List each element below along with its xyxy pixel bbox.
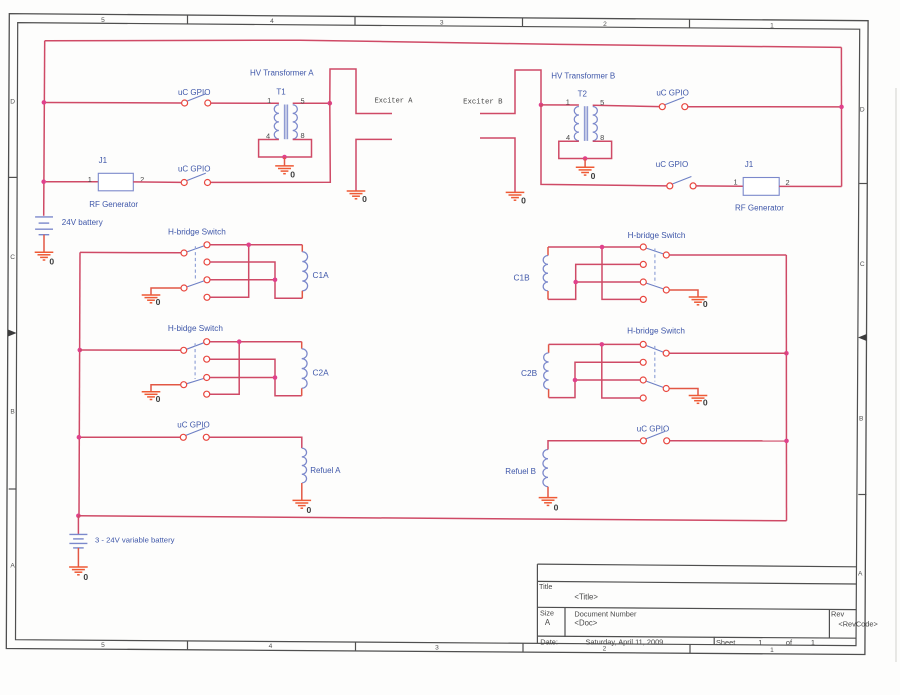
wire switch to right bus xyxy=(688,106,840,108)
svg-text:5: 5 xyxy=(300,96,304,105)
wire T1 pin5 to junction xyxy=(293,102,330,104)
ground variable battery xyxy=(69,567,88,582)
wire battery to ground xyxy=(43,235,45,252)
svg-text:C2A: C2A xyxy=(313,368,330,378)
wire C2B pole1 to right H-bus xyxy=(669,352,786,354)
wire H-bidge Switch throw3 link xyxy=(210,377,275,379)
inductor Refuel A xyxy=(302,448,341,500)
svg-text:0: 0 xyxy=(554,502,559,512)
switch S5 (uC GPIO) xyxy=(177,420,209,440)
svg-text:0: 0 xyxy=(703,299,708,309)
battery B1 (24V battery) xyxy=(35,217,103,235)
wire T2 secondary bracket xyxy=(559,141,612,158)
svg-text:Exciter A: Exciter A xyxy=(375,98,414,106)
svg-text:T1: T1 xyxy=(276,88,286,97)
wire bottom return bus xyxy=(78,516,786,521)
wire junction up-over to exciter A top stub xyxy=(330,69,392,114)
svg-text:3: 3 xyxy=(435,644,439,651)
svg-text:RF Generator: RF Generator xyxy=(735,204,784,213)
wire left bus to J1 pin1 xyxy=(46,181,98,183)
wire left bus down to variable battery xyxy=(77,516,79,535)
svg-text:J1: J1 xyxy=(99,156,108,165)
svg-text:Saturday, April 11, 2009: Saturday, April 11, 2009 xyxy=(586,637,664,646)
ground T2 secondary xyxy=(576,167,596,181)
transformer T1 xyxy=(274,88,297,140)
svg-text:1: 1 xyxy=(770,22,774,29)
svg-text:A: A xyxy=(858,570,863,577)
ground H-bridge Switch pole2 xyxy=(142,295,161,307)
node junction H-bridge Switch throw1/throw4 xyxy=(600,342,605,347)
svg-text:2: 2 xyxy=(603,646,607,653)
wire H-bridge Switch throw1 to C2B top xyxy=(549,343,641,345)
svg-text:B: B xyxy=(859,415,864,422)
ground T1 secondary xyxy=(275,166,295,180)
svg-text:A: A xyxy=(545,618,551,627)
ground exciter A xyxy=(347,191,367,204)
switch S3 (uC GPIO) xyxy=(656,89,688,110)
wire exciter A bottom stub to ground xyxy=(356,139,392,190)
switch S2 (uC GPIO) xyxy=(178,165,211,186)
svg-text:0: 0 xyxy=(362,194,367,204)
svg-text:HV Transformer B: HV Transformer B xyxy=(551,71,615,80)
svg-text:Sheet: Sheet xyxy=(716,638,735,647)
inductor C1A xyxy=(302,245,329,298)
node junction exciter B / T2 pin1 xyxy=(539,103,544,108)
wire junction to T2 pin1 xyxy=(541,104,579,106)
wire H-bridge Switch pole2 to ground xyxy=(669,389,698,396)
switch S4 (uC GPIO) xyxy=(656,160,696,189)
svg-text:C: C xyxy=(860,261,865,268)
wire junction down to J1-row elbow xyxy=(211,103,331,182)
svg-text:Date:: Date: xyxy=(540,637,558,646)
node junction T2 secondary / ground xyxy=(583,156,588,161)
svg-text:C: C xyxy=(10,254,15,261)
wire H-bridge Switch throw4 cross link xyxy=(602,247,640,299)
J1 right pin numbers xyxy=(733,178,789,187)
svg-text:Title: Title xyxy=(539,582,552,591)
connector J1 (RF Generator, left) xyxy=(89,156,138,209)
relay H-bridge Switch (C2B drive) xyxy=(627,327,685,401)
svg-text:0: 0 xyxy=(49,256,54,266)
svg-text:4: 4 xyxy=(269,643,273,650)
wire H-bridge Switch throw4 cross link xyxy=(602,344,640,398)
wire T2 pin5 to switch xyxy=(593,105,660,106)
svg-text:of: of xyxy=(786,638,793,647)
svg-text:5: 5 xyxy=(101,642,105,649)
wire H-bridge Switch throw1 to C1A top xyxy=(210,244,302,246)
wire right H-bridge bus xyxy=(785,255,787,521)
relay H-bridge Switch (C1A drive) xyxy=(168,227,226,300)
svg-text:uC GPIO: uC GPIO xyxy=(178,88,210,97)
node junction right H-bus / C2B pole xyxy=(784,351,789,356)
node junction H-bridge Switch throw2/throw3 xyxy=(573,280,578,285)
wire switch to right H-bus xyxy=(670,440,785,442)
inductor C2B xyxy=(521,344,549,397)
wire exciter B bottom stub to ground xyxy=(480,138,515,192)
switch S6 (uC GPIO) xyxy=(637,424,670,443)
inductor Refuel B xyxy=(505,450,548,498)
wire H-bridge Switch throw3 link xyxy=(576,281,641,283)
svg-text:Refuel A: Refuel A xyxy=(310,466,341,475)
wire H-bridge Switch throw2 cross link xyxy=(548,264,640,299)
relay H-bidge Switch (C2A drive) xyxy=(168,324,224,397)
node junction H-bridge Switch throw1/throw4 xyxy=(600,245,605,250)
svg-text:C1B: C1B xyxy=(514,272,531,282)
battery B2 (3 - 24V variable battery) xyxy=(69,534,174,548)
wire switch to T1 pin1 xyxy=(211,102,279,104)
node junction T1 pin5 / exciter A xyxy=(328,101,333,106)
wire H-bridge Switch throw3 link xyxy=(575,379,640,381)
svg-text:1: 1 xyxy=(566,98,570,107)
node junction H-bidge Switch throw1/throw4 xyxy=(237,339,242,344)
node junction H-bus / C2A pole xyxy=(78,348,83,353)
wire H-bridge Switch throw2 cross link xyxy=(210,262,302,298)
svg-text:24V battery: 24V battery xyxy=(62,218,103,227)
svg-text:3 - 24V variable battery: 3 - 24V variable battery xyxy=(95,536,175,545)
wire H-bridge Switch throw1 to C1B top xyxy=(548,246,640,248)
wire J1 pin2 to right bus xyxy=(779,185,841,187)
wire H-bus to C1A pole1 xyxy=(80,251,181,253)
switch S1 (uC GPIO) xyxy=(178,88,211,106)
wire T1 ground stem xyxy=(284,157,286,166)
wire junction down to J1-row elbow xyxy=(541,105,667,186)
ground refuel A xyxy=(293,500,312,515)
svg-text:1: 1 xyxy=(88,175,92,184)
wire exciter B top stub xyxy=(480,70,541,114)
wire left battery bus xyxy=(44,41,45,216)
wire switch to J1 pin1 xyxy=(696,185,743,187)
svg-text:T2: T2 xyxy=(578,89,588,98)
wire H-bridge Switch pole2 to ground xyxy=(669,290,698,297)
svg-text:0: 0 xyxy=(156,394,161,404)
svg-text:0: 0 xyxy=(521,195,526,205)
transformer T2 xyxy=(574,89,597,141)
svg-text:D: D xyxy=(860,106,865,113)
svg-text:Refuel B: Refuel B xyxy=(505,467,536,476)
node junction H-bridge Switch throw2/throw3 xyxy=(573,378,578,383)
svg-text:2: 2 xyxy=(603,21,607,28)
node junction left bus / J1 row xyxy=(41,179,46,184)
svg-text:H-bridge Switch: H-bridge Switch xyxy=(627,327,685,336)
svg-text:<Doc>: <Doc> xyxy=(574,619,597,628)
svg-text:RF Generator: RF Generator xyxy=(89,200,138,209)
svg-text:5: 5 xyxy=(600,98,604,107)
ground H-bridge Switch pole2 xyxy=(689,297,708,309)
svg-text:1: 1 xyxy=(758,638,762,647)
svg-text:H-bridge Switch: H-bridge Switch xyxy=(168,227,226,236)
wire H-bidge Switch pole2 to ground xyxy=(151,385,181,392)
ground battery 24V xyxy=(35,252,55,266)
wire T2 ground stem xyxy=(584,159,586,168)
connector J1 (RF Generator, right) xyxy=(735,160,784,213)
wire H-bridge Switch pole2 to ground xyxy=(151,288,181,295)
node junction T1 secondary / ground xyxy=(282,155,287,160)
wire switch to refuel A inductor xyxy=(209,437,301,448)
wire left bus to uC GPIO switch xyxy=(46,102,182,105)
node junction right bus / row1 xyxy=(839,105,844,110)
svg-text:<RevCode>: <RevCode> xyxy=(838,620,877,629)
wire H-bus to refuel switch xyxy=(81,436,180,438)
wire refuel B inductor to switch xyxy=(548,441,640,450)
wire top bus (battery + to right bus) xyxy=(45,40,842,47)
T2 pin numbers xyxy=(566,98,605,143)
J1 left pin numbers xyxy=(88,175,145,184)
wire H-bidge Switch throw2 cross link xyxy=(210,359,302,396)
wire H-bridge Switch throw4 cross link xyxy=(210,245,249,297)
node junction H-bridge Switch throw1/throw4 xyxy=(246,243,251,248)
ground H-bidge Switch pole2 xyxy=(142,392,161,404)
svg-text:0: 0 xyxy=(83,572,88,582)
ground exciter B xyxy=(506,192,526,205)
T1 pin numbers xyxy=(266,96,305,140)
svg-text:A: A xyxy=(10,562,15,569)
svg-text:5: 5 xyxy=(101,17,105,24)
wire left H-bridge bus xyxy=(79,252,80,515)
ground H-bridge Switch pole2 xyxy=(689,396,708,408)
svg-text:Document Number: Document Number xyxy=(574,609,637,618)
svg-text:2: 2 xyxy=(785,178,789,187)
node junction H-bridge Switch throw2/throw3 xyxy=(273,278,278,283)
inductor C2A xyxy=(302,342,329,396)
svg-text:1: 1 xyxy=(733,178,737,187)
node junction H-bidge Switch throw2/throw3 xyxy=(273,375,278,380)
node junction H-bus / refuel A row xyxy=(77,435,82,440)
svg-text:HV Transformer A: HV Transformer A xyxy=(250,69,314,78)
wire variable battery to ground xyxy=(77,548,79,567)
svg-text:0: 0 xyxy=(591,171,596,181)
svg-text:B: B xyxy=(10,408,15,415)
wire T1 secondary bracket xyxy=(259,140,312,158)
wire H-bridge Switch throw2 cross link xyxy=(549,362,641,397)
ground refuel B xyxy=(539,498,559,513)
svg-text:1: 1 xyxy=(811,638,815,647)
svg-text:Rev: Rev xyxy=(831,609,844,618)
svg-text:C1A: C1A xyxy=(313,270,330,280)
node junction right H-bus / refuel B row xyxy=(784,439,789,444)
svg-text:2: 2 xyxy=(140,175,144,184)
wire J1 pin2 to switch xyxy=(133,181,181,184)
node junction left bus / row1 xyxy=(42,100,47,105)
svg-text:Size: Size xyxy=(540,609,554,618)
wire H-bus to C2A pole1 xyxy=(80,349,181,351)
svg-text:0: 0 xyxy=(307,505,312,515)
wire H-bidge Switch throw4 cross link xyxy=(210,342,240,395)
svg-text:0: 0 xyxy=(290,170,295,180)
svg-text:D: D xyxy=(10,98,15,105)
svg-text:uC GPIO: uC GPIO xyxy=(656,160,688,169)
wire C1B pole1 to right H-bus xyxy=(669,254,786,256)
svg-text:4: 4 xyxy=(270,18,274,25)
svg-text:H-bidge Switch: H-bidge Switch xyxy=(168,324,224,333)
wire right bus down to J1 pin2 xyxy=(840,47,842,186)
svg-text:0: 0 xyxy=(156,297,161,307)
wire H-bidge Switch throw1 to C2A top xyxy=(210,341,302,343)
svg-text:<Title>: <Title> xyxy=(574,592,598,601)
svg-text:Exciter B: Exciter B xyxy=(463,99,503,107)
relay H-bridge Switch (C1B drive) xyxy=(628,231,686,303)
svg-text:uC GPIO: uC GPIO xyxy=(178,165,210,174)
svg-text:uC GPIO: uC GPIO xyxy=(656,89,688,98)
svg-text:H-bridge Switch: H-bridge Switch xyxy=(628,231,686,240)
svg-text:J1: J1 xyxy=(745,160,754,169)
wire H-bridge Switch throw3 link xyxy=(210,279,275,281)
svg-text:3: 3 xyxy=(440,20,444,27)
svg-text:1: 1 xyxy=(770,647,774,654)
svg-text:1: 1 xyxy=(267,96,271,105)
node junction H-bus / bottom wire xyxy=(76,514,81,519)
svg-text:0: 0 xyxy=(703,398,708,408)
inductor C1B xyxy=(514,247,549,299)
svg-text:C2B: C2B xyxy=(521,368,538,378)
